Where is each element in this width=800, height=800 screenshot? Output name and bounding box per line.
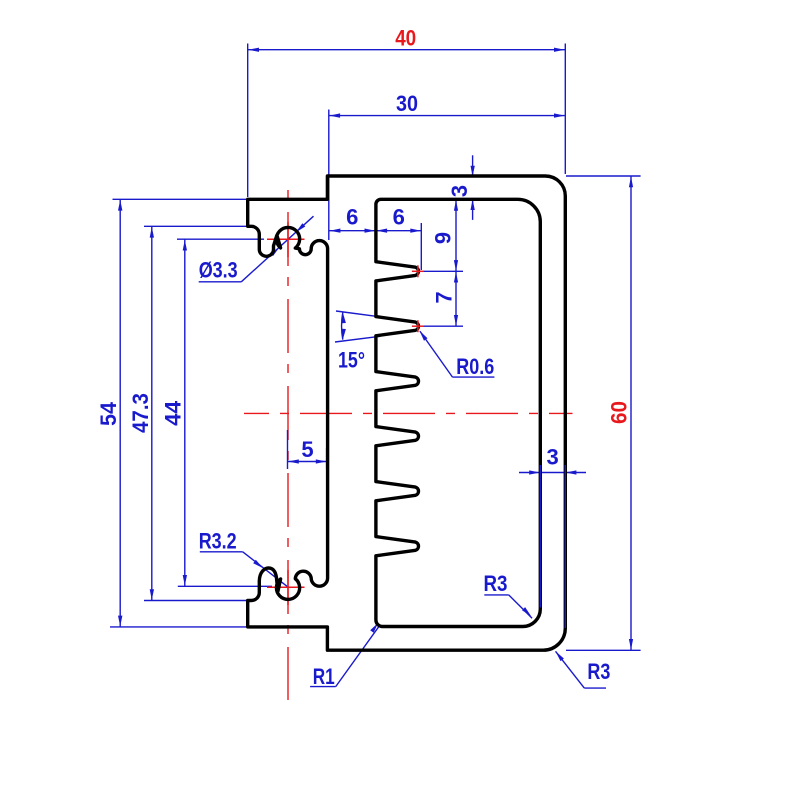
svg-text:7: 7	[431, 291, 456, 303]
dimension 5 lines	[288, 448, 328, 469]
dimension 7 text	[431, 291, 456, 303]
svg-text:R1: R1	[313, 664, 335, 689]
leader R3.2	[200, 552, 288, 587]
leader R3 outer	[556, 651, 607, 688]
svg-text:6: 6	[346, 204, 358, 229]
dimension 5 extension line	[287, 430, 289, 469]
svg-text:6: 6	[393, 204, 405, 229]
dimension 3 right extension lines	[540, 465, 565, 628]
dimension 30 text	[396, 91, 418, 116]
svg-text:15°: 15°	[338, 348, 365, 373]
label R3 outer	[587, 659, 610, 684]
crosshair bottom boss	[267, 570, 305, 605]
dimension 15deg text	[338, 348, 365, 373]
svg-text:47.3: 47.3	[128, 393, 153, 433]
svg-text:3: 3	[447, 185, 472, 197]
label R3.2	[199, 529, 237, 554]
dimension 60 lines	[566, 176, 641, 650]
tooth tip cross	[412, 320, 424, 332]
dimension 44 lines	[177, 239, 272, 586]
extrusion profile outer contour	[248, 176, 566, 650]
dimension 60 text	[607, 401, 632, 424]
svg-text:Ø3.3: Ø3.3	[199, 258, 238, 283]
svg-text:3: 3	[546, 445, 558, 470]
dimension 54 text	[96, 401, 121, 426]
dimension 40 text	[395, 25, 416, 50]
svg-text:R3: R3	[587, 659, 610, 684]
label R3 inner	[484, 571, 508, 596]
dimension 6-6 lines	[329, 223, 421, 270]
leader R0.6	[420, 331, 495, 378]
centerline horizontal	[244, 412, 573, 414]
svg-text:5: 5	[301, 437, 313, 462]
dimension 3 right text	[546, 445, 558, 470]
svg-text:44: 44	[161, 400, 186, 426]
dimension 47.3 lines	[144, 226, 252, 600]
svg-text:54: 54	[96, 401, 121, 426]
dimension 54 lines	[110, 199, 247, 627]
dimension 15deg lines	[335, 311, 380, 342]
dimension 7 lines	[423, 271, 463, 326]
tooth tip cross	[412, 265, 424, 277]
dimension 9 text	[431, 232, 456, 244]
dimension 3 top lines	[471, 155, 475, 220]
svg-text:30: 30	[396, 91, 418, 116]
leader diameter 3.3	[199, 216, 314, 282]
label R1	[313, 664, 335, 689]
dimension 6 text left	[346, 204, 358, 229]
dimension 3 right lines	[519, 470, 586, 474]
leader R3 inner	[484, 595, 532, 618]
dimension 5 text	[301, 437, 313, 462]
svg-text:R3.2: R3.2	[199, 529, 237, 554]
dimension 6 text right	[393, 204, 405, 229]
label R0.6	[456, 354, 494, 379]
leader R1	[310, 623, 379, 687]
dimension 30 lines	[329, 110, 565, 241]
crosshair top boss	[267, 222, 305, 257]
dimension 44 text	[161, 400, 186, 426]
svg-text:40: 40	[395, 25, 416, 50]
svg-text:R0.6: R0.6	[456, 354, 494, 379]
svg-text:60: 60	[607, 401, 632, 424]
dimension 3 top text	[447, 185, 472, 197]
dimension 47.3 text	[128, 393, 153, 433]
svg-text:9: 9	[431, 232, 456, 244]
centerline vertical bosses	[287, 181, 289, 700]
dimension 9 lines	[423, 200, 463, 272]
svg-text:R3: R3	[484, 571, 508, 596]
label diameter 3.3	[199, 258, 238, 283]
extrusion profile inner cavity with fins	[376, 199, 540, 626]
dimension 40 lines	[248, 44, 566, 198]
